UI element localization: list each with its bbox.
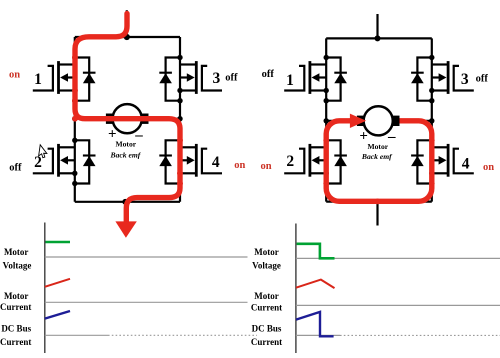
right on/off labels <box>260 69 494 173</box>
right crossbar junction dots <box>324 118 329 123</box>
svg-text:1: 1 <box>34 71 42 88</box>
svg-text:on: on <box>234 160 245 171</box>
transistor Q4b <box>411 138 474 187</box>
transistor Q3b <box>411 55 474 104</box>
left supply junction <box>124 34 130 40</box>
left plot dotted continuation <box>108 334 257 336</box>
svg-text:Current: Current <box>251 337 282 347</box>
motor <box>106 104 149 133</box>
svg-text:Motor: Motor <box>367 142 388 151</box>
svg-text:Back emf: Back emf <box>361 152 393 161</box>
transistor Q2 <box>33 138 96 187</box>
svg-text:Back emf: Back emf <box>110 150 142 159</box>
svg-text:Current: Current <box>0 337 31 347</box>
right switch labels <box>286 71 470 172</box>
transistor Q1b <box>284 55 347 104</box>
left switch labels <box>34 70 220 171</box>
svg-text:2: 2 <box>286 153 294 170</box>
svg-text:4: 4 <box>462 155 470 172</box>
left plot labels <box>0 247 32 347</box>
left motor voltage trace (green) <box>46 241 71 244</box>
red junction dots left <box>72 55 183 187</box>
svg-text:Motor: Motor <box>254 247 279 257</box>
transistor Q2b <box>284 138 347 187</box>
svg-text:Current: Current <box>0 302 31 312</box>
svg-text:Motor: Motor <box>4 291 29 301</box>
left plot baselines <box>45 257 248 335</box>
svg-text:off: off <box>262 69 275 80</box>
right plot dotted continuation <box>340 334 500 336</box>
wire: red freewheel loop right bridge <box>326 121 432 202</box>
svg-text:1: 1 <box>286 72 294 89</box>
svg-text:on: on <box>260 161 271 172</box>
right supply junction <box>375 35 381 41</box>
right motor current trace (red) <box>296 280 335 289</box>
transistor Q1 <box>33 55 96 104</box>
transistor Q3 <box>159 55 222 104</box>
svg-text:3: 3 <box>213 70 221 87</box>
left motor current trace (red) <box>45 279 70 287</box>
wire: red current path left bridge <box>75 14 180 223</box>
motor polarity labels <box>108 126 143 159</box>
svg-text:–: – <box>387 129 396 145</box>
right bridge wires <box>326 14 432 226</box>
motor polarity labels <box>359 128 396 161</box>
svg-text:Motor: Motor <box>254 291 279 301</box>
svg-text:Current: Current <box>251 302 282 312</box>
svg-text:4: 4 <box>212 154 220 171</box>
right plot baselines <box>296 258 500 335</box>
red junction dots right <box>323 137 434 204</box>
left crossbar junction dots <box>72 116 77 121</box>
svg-text:off: off <box>9 163 22 174</box>
svg-text:on: on <box>483 162 494 173</box>
svg-text:Motor: Motor <box>4 247 29 257</box>
left plot axis <box>44 223 46 354</box>
svg-text:DC Bus: DC Bus <box>252 324 282 334</box>
svg-text:Voltage: Voltage <box>3 260 32 270</box>
right plot axis <box>295 224 297 354</box>
svg-text:off: off <box>225 73 238 84</box>
left dc bus current trace (blue) <box>45 311 70 319</box>
svg-text:DC Bus: DC Bus <box>1 324 31 334</box>
svg-text:on: on <box>9 70 20 81</box>
mouse cursor artifact <box>38 145 47 158</box>
left bridge wires <box>75 10 180 202</box>
left bottom junction <box>122 199 128 205</box>
transistor Q4 <box>159 138 222 187</box>
red exit arrowhead <box>115 221 136 237</box>
svg-text:3: 3 <box>461 71 469 88</box>
svg-text:Motor: Motor <box>115 140 136 149</box>
svg-text:off: off <box>476 74 489 85</box>
red loop arrowhead <box>350 114 366 128</box>
left on/off labels <box>9 70 246 174</box>
right motor voltage trace (green) <box>297 244 335 258</box>
svg-text:Voltage: Voltage <box>252 260 281 270</box>
motor <box>357 106 400 135</box>
right dc bus current trace (blue) <box>296 312 334 336</box>
right plot labels <box>251 247 282 347</box>
